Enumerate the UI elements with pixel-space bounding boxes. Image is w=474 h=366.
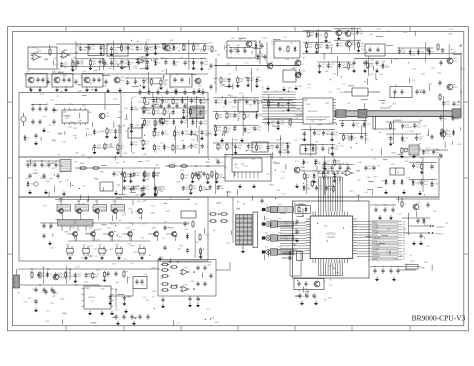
svg-text:GND: GND xyxy=(160,186,165,188)
svg-text:VCC: VCC xyxy=(119,112,124,114)
svg-text:VCC: VCC xyxy=(281,178,286,180)
svg-text:10K: 10K xyxy=(319,47,323,49)
svg-text:10K: 10K xyxy=(319,189,323,191)
svg-text:1N4148: 1N4148 xyxy=(229,116,237,118)
svg-text:10K: 10K xyxy=(338,262,342,264)
svg-text:41: 41 xyxy=(403,251,405,253)
svg-text:9014: 9014 xyxy=(453,87,459,89)
svg-text:MOSI: MOSI xyxy=(373,259,378,261)
svg-text:VCC: VCC xyxy=(403,228,408,230)
svg-text:10K: 10K xyxy=(123,49,127,51)
svg-text:10K: 10K xyxy=(224,168,228,170)
svg-text:VBAT: VBAT xyxy=(420,267,426,270)
svg-text:10K: 10K xyxy=(120,61,124,63)
svg-text:10K: 10K xyxy=(368,169,372,171)
svg-text:VCC: VCC xyxy=(337,89,342,91)
svg-text:U3A: U3A xyxy=(347,168,352,171)
svg-text:VCC: VCC xyxy=(81,258,86,260)
svg-text:VCC: VCC xyxy=(46,310,51,312)
svg-text:GND: GND xyxy=(140,141,145,143)
svg-text:VCC: VCC xyxy=(245,63,250,65)
svg-text:VCC: VCC xyxy=(303,296,308,298)
svg-text:GND: GND xyxy=(409,131,414,133)
svg-text:9014: 9014 xyxy=(105,116,111,118)
svg-text:10K: 10K xyxy=(357,180,361,182)
svg-text:10K: 10K xyxy=(113,99,117,101)
svg-text:VCC: VCC xyxy=(310,144,315,146)
svg-text:1N4148: 1N4148 xyxy=(336,163,344,165)
svg-text:RS485-A: RS485-A xyxy=(436,225,445,228)
svg-text:10K: 10K xyxy=(326,169,330,171)
svg-text:VCC: VCC xyxy=(351,227,356,229)
svg-text:U1A: U1A xyxy=(183,284,188,287)
svg-text:GND: GND xyxy=(233,97,238,99)
svg-text:VCC: VCC xyxy=(426,148,431,150)
svg-text:10K: 10K xyxy=(206,49,210,51)
svg-text:VCC: VCC xyxy=(171,163,176,165)
svg-text:1N4148: 1N4148 xyxy=(155,113,163,115)
svg-text:VCC: VCC xyxy=(112,263,117,265)
svg-text:1N4148: 1N4148 xyxy=(194,177,202,179)
svg-text:1N4148: 1N4148 xyxy=(107,147,115,149)
svg-text:RS485-B: RS485-B xyxy=(435,233,444,235)
svg-text:AN2: AN2 xyxy=(293,253,297,256)
svg-text:10K: 10K xyxy=(146,82,150,84)
svg-text:DG128: DG128 xyxy=(327,237,335,239)
svg-text:MC9S12: MC9S12 xyxy=(327,234,337,236)
svg-text:GND: GND xyxy=(419,236,424,238)
svg-text:10K: 10K xyxy=(117,82,121,84)
svg-text:9014: 9014 xyxy=(453,61,459,63)
svg-text:9014: 9014 xyxy=(351,33,357,35)
svg-text:GND: GND xyxy=(227,45,232,47)
svg-text:VCC: VCC xyxy=(411,181,416,183)
svg-text:10K: 10K xyxy=(282,153,286,155)
svg-text:AN2: AN2 xyxy=(293,233,297,236)
svg-text:GND: GND xyxy=(205,135,210,137)
svg-text:GND: GND xyxy=(60,299,65,301)
svg-text:GND: GND xyxy=(100,131,105,133)
svg-text:U1A: U1A xyxy=(183,267,188,270)
svg-text:10K: 10K xyxy=(146,176,150,178)
svg-text:GND: GND xyxy=(150,212,155,214)
svg-text:GND: GND xyxy=(391,152,396,154)
svg-text:10K: 10K xyxy=(65,118,69,120)
svg-text:1N4148: 1N4148 xyxy=(126,176,134,178)
svg-text:GND: GND xyxy=(99,172,104,174)
svg-text:GND: GND xyxy=(280,236,285,238)
svg-text:10K: 10K xyxy=(203,113,207,115)
svg-text:U12: U12 xyxy=(85,287,90,290)
svg-text:89: 89 xyxy=(403,240,405,242)
svg-text:GND: GND xyxy=(133,252,138,254)
svg-text:73: 73 xyxy=(403,254,405,256)
svg-text:GND: GND xyxy=(269,184,274,186)
svg-text:VCC: VCC xyxy=(235,167,240,169)
svg-text:85: 85 xyxy=(403,243,405,245)
svg-text:24: 24 xyxy=(403,224,405,226)
svg-text:10K: 10K xyxy=(146,300,150,302)
svg-text:LM358: LM358 xyxy=(88,297,95,299)
svg-text:GND: GND xyxy=(63,76,68,78)
svg-text:9014: 9014 xyxy=(120,80,126,82)
svg-text:GND: GND xyxy=(45,181,50,183)
svg-text:10K: 10K xyxy=(55,219,59,221)
svg-text:10K: 10K xyxy=(270,148,274,150)
svg-text:64: 64 xyxy=(403,235,405,237)
svg-text:17: 17 xyxy=(403,257,405,259)
svg-text:PWR: PWR xyxy=(306,104,311,106)
svg-text:10K: 10K xyxy=(114,50,118,52)
svg-text:GND: GND xyxy=(77,91,82,93)
svg-text:VCC: VCC xyxy=(201,58,206,60)
svg-text:GND: GND xyxy=(182,50,187,52)
svg-text:10K: 10K xyxy=(219,177,223,179)
svg-text:GND: GND xyxy=(205,235,210,237)
svg-text:GND: GND xyxy=(176,197,181,199)
svg-text:13: 13 xyxy=(403,221,405,223)
svg-text:GND: GND xyxy=(208,43,213,45)
svg-text:58: 58 xyxy=(403,248,405,250)
svg-text:MC33742: MC33742 xyxy=(308,111,318,113)
svg-text:62: 62 xyxy=(403,259,405,261)
svg-text:10K: 10K xyxy=(149,50,153,52)
svg-text:10K: 10K xyxy=(134,144,138,146)
svg-text:VDD1: VDD1 xyxy=(404,264,410,266)
svg-text:99: 99 xyxy=(403,238,405,240)
svg-text:10K: 10K xyxy=(146,102,150,104)
svg-text:10K: 10K xyxy=(358,162,362,164)
svg-text:VCC: VCC xyxy=(332,161,337,163)
svg-text:10K: 10K xyxy=(108,68,112,70)
svg-text:BR9000-CPU-V3: BR9000-CPU-V3 xyxy=(412,313,466,322)
svg-text:GND: GND xyxy=(451,52,456,54)
svg-text:VCC: VCC xyxy=(225,51,230,53)
svg-text:GND: GND xyxy=(381,103,386,105)
svg-text:VCC: VCC xyxy=(449,29,454,31)
svg-text:1N4148: 1N4148 xyxy=(175,149,183,151)
svg-text:GND: GND xyxy=(70,122,75,124)
svg-text:VCC: VCC xyxy=(145,67,150,69)
svg-text:21: 21 xyxy=(403,246,405,248)
svg-text:10K: 10K xyxy=(382,61,386,63)
svg-text:10K: 10K xyxy=(335,273,339,275)
